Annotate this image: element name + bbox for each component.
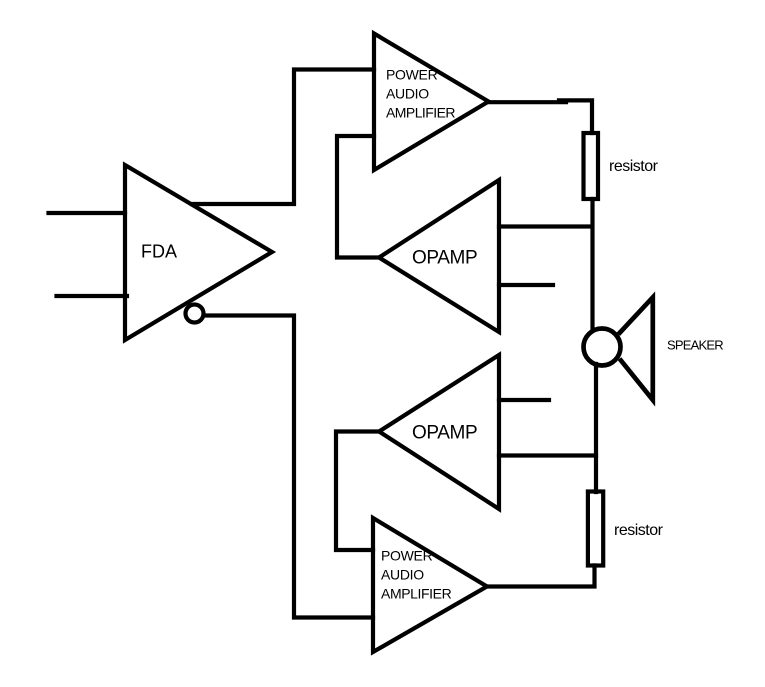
transistor-like power amp U5 triangle (POWER AUDIO AMPLIFIER bottom) — [373, 518, 487, 652]
wire feedback from op-amp U4 output to power amp U5 upper input — [336, 432, 379, 551]
speaker driver circle — [584, 329, 621, 366]
transistor-like power amp U2 triangle (POWER AUDIO AMPLIFIER top) — [374, 34, 489, 171]
wire op-amp U4 upper stub — [499, 398, 549, 402]
svg-text:AMPLIFIER: AMPLIFIER — [386, 105, 455, 121]
op-amp U4 triangle (OPAMP lower, points left) — [379, 355, 499, 509]
wire feedback from op-amp U3 output to power amp U2 lower input — [337, 136, 379, 258]
wire op-amp U3 input from output node — [499, 224, 592, 228]
resistor R2 — [588, 492, 603, 566]
svg-text:OPAMP: OPAMP — [412, 248, 477, 269]
speaker horn — [620, 297, 653, 400]
wire FDA inverting output to power amp U5 lower input — [204, 316, 373, 618]
wire input bottom to FDA — [57, 294, 128, 298]
resistor R1 — [584, 133, 599, 199]
wire resistor R2 bottom to power amp U5 output — [487, 566, 595, 587]
wire resistor R1 bottom to speaker node — [590, 199, 594, 330]
svg-text:OPAMP: OPAMP — [412, 423, 477, 444]
svg-text:AUDIO: AUDIO — [386, 86, 429, 102]
wire FDA non-inverting output to power amp U2 upper input — [192, 70, 374, 205]
wire op-amp U4 input from lower node — [499, 453, 596, 457]
svg-text:resistor: resistor — [609, 158, 659, 175]
svg-text:POWER: POWER — [381, 548, 433, 564]
svg-text:FDA: FDA — [141, 242, 177, 262]
svg-text:POWER: POWER — [386, 67, 438, 83]
inverting output bubble on FDA — [186, 305, 204, 323]
wire input top to FDA — [49, 211, 126, 215]
svg-text:AUDIO: AUDIO — [381, 567, 424, 583]
wire power amp U2 output to resistor R1 — [489, 100, 567, 104]
op-amp U3 triangle (OPAMP upper, points left) — [379, 180, 499, 332]
svg-text:AMPLIFIER: AMPLIFIER — [381, 586, 452, 602]
svg-text:SPEAKER: SPEAKER — [667, 338, 723, 353]
wire speaker to resistor R2 — [594, 364, 598, 492]
op-amp U1 FDA triangle — [125, 165, 272, 340]
wire op-amp U3 lower stub — [499, 283, 553, 287]
svg-text:resistor: resistor — [614, 522, 664, 539]
